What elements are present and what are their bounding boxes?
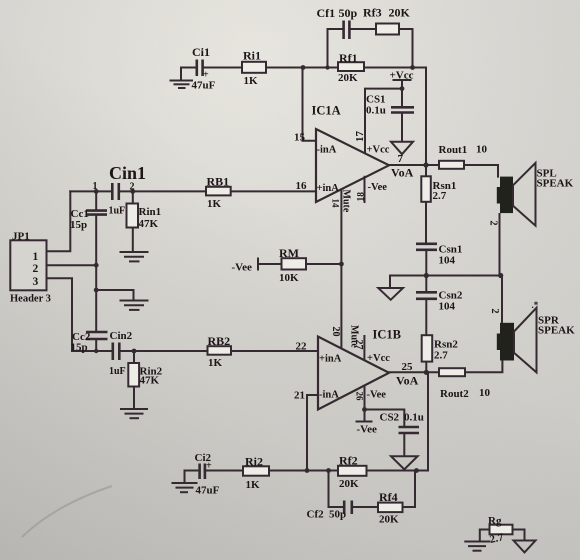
svg-text:2.7: 2.7 <box>433 190 447 202</box>
-Vee terminal for RM <box>257 259 259 270</box>
svg-text:47K: 47K <box>139 218 159 230</box>
wire +Vcc to pin 17 <box>365 89 402 153</box>
svg-text:Rin1: Rin1 <box>139 206 162 218</box>
pin 18 stub <box>364 177 366 202</box>
svg-text:Ci1: Ci1 <box>192 45 210 59</box>
svg-text:Rf3: Rf3 <box>363 6 382 20</box>
wire Rin2 leads <box>133 351 135 408</box>
resistor Rin2 47K <box>128 363 139 387</box>
pin 26 lead <box>364 386 366 410</box>
signal ground mid <box>121 301 148 310</box>
svg-text:Rout2: Rout2 <box>440 388 469 400</box>
wire Ri1 to Rf1 through node <box>266 67 338 69</box>
svg-text:50p: 50p <box>339 6 358 20</box>
capacitor Csn2 104 <box>416 292 437 299</box>
label Csn2 104 <box>439 290 463 313</box>
resistor Rf4 20K <box>378 503 403 512</box>
power ground triangle mid <box>378 276 403 300</box>
ground for Ci1 <box>171 68 196 89</box>
wire top loop Cf1/Rf3 <box>328 29 413 68</box>
capacitor Cf1 50p <box>344 21 350 40</box>
svg-text:47K: 47K <box>140 375 160 387</box>
svg-text:10K: 10K <box>279 272 299 284</box>
wire SPR to mid node <box>501 276 503 323</box>
label Rsn1 2.7 <box>433 180 457 202</box>
svg-text:IC1B: IC1B <box>373 328 401 342</box>
svg-text:.*: .* <box>532 300 539 310</box>
svg-text:Cin1: Cin1 <box>109 163 146 183</box>
svg-text:25: 25 <box>402 361 414 373</box>
wire mid ground tap <box>96 290 133 299</box>
label Cc1 15p <box>70 208 89 231</box>
svg-text:20K: 20K <box>338 72 358 84</box>
op-amp IC1B <box>318 337 389 410</box>
svg-text:+Vcc: +Vcc <box>367 145 390 156</box>
node output B <box>424 370 429 375</box>
+Vcc rail symbol <box>394 80 411 89</box>
wire output A to Rout1 <box>389 164 439 166</box>
svg-text:Cin2: Cin2 <box>110 330 133 342</box>
svg-text:1K: 1K <box>244 75 259 87</box>
power ground triangle under CS2 <box>391 456 418 469</box>
svg-text:50p: 50p <box>329 509 346 521</box>
node Cc chain ground tap <box>94 288 99 293</box>
node Ri2 / pin21 <box>305 468 310 473</box>
svg-text:SPEAK: SPEAK <box>537 178 574 190</box>
node speaker mid <box>498 273 503 278</box>
label Rf1 20K <box>338 51 358 84</box>
wire -Vee to RM <box>258 263 282 265</box>
wire Ci2 to Ri2 <box>205 470 244 472</box>
-Vee terminal below IC1B <box>357 410 372 422</box>
label Cin1 <box>93 163 147 193</box>
label RB1 <box>207 175 230 210</box>
svg-text:-inA: -inA <box>319 390 339 401</box>
label Ri2 <box>245 455 263 492</box>
node +Vcc/CS1 <box>400 86 405 91</box>
svg-text:47uF: 47uF <box>192 80 216 92</box>
svg-text:RM: RM <box>279 246 299 260</box>
svg-text:Ri1: Ri1 <box>243 49 261 63</box>
wire RM to mute line <box>306 263 341 265</box>
wire JP1 pin3 <box>47 278 73 351</box>
wire Rin1 top lead <box>132 191 134 203</box>
svg-text:CS2: CS2 <box>380 412 400 424</box>
svg-text:VoA: VoA <box>391 166 414 180</box>
resistor Rin1 47K <box>127 204 139 228</box>
svg-text:Header 3: Header 3 <box>10 294 51 305</box>
svg-text:Rf1: Rf1 <box>339 51 358 65</box>
resistor RB1 1K <box>206 187 231 196</box>
svg-text:1uF: 1uF <box>109 366 126 377</box>
svg-text:15p: 15p <box>70 219 87 231</box>
svg-text:-Vee: -Vee <box>368 182 388 193</box>
svg-text:10: 10 <box>476 144 488 156</box>
svg-text:15p: 15p <box>71 342 88 354</box>
svg-text:16: 16 <box>296 180 308 192</box>
capacitor Cc1 15p <box>86 211 107 215</box>
svg-text:-Vee: -Vee <box>367 390 387 401</box>
wire feedback down to output node A <box>425 68 427 166</box>
capacitor Cin1 1uF <box>112 183 119 200</box>
wire SPL to mid node <box>499 214 501 276</box>
capacitor Cin2 1uF <box>113 343 120 361</box>
label Rout2 10 <box>440 387 491 400</box>
svg-text:Mute: Mute <box>341 190 352 213</box>
label Rsn2 2.7 <box>434 339 458 362</box>
svg-text:-Vee: -Vee <box>357 424 377 436</box>
label Cc2 15p <box>71 331 91 354</box>
wire input 2 line <box>72 350 318 352</box>
svg-text:3: 3 <box>33 276 39 288</box>
svg-text:20K: 20K <box>339 478 359 490</box>
svg-text:RB1: RB1 <box>207 175 230 189</box>
label CS1 0.1u <box>366 94 386 117</box>
pin 27 stub <box>363 336 365 360</box>
svg-text:1K: 1K <box>246 479 261 491</box>
svg-text:47uF: 47uF <box>196 485 220 497</box>
svg-text:+Vcc: +Vcc <box>367 353 390 364</box>
svg-text:+inA: +inA <box>317 183 340 194</box>
svg-text:104: 104 <box>439 301 456 313</box>
node -Vee / CS2 <box>362 407 367 412</box>
label Ci2 <box>195 452 220 497</box>
svg-text:0.1u: 0.1u <box>366 105 386 117</box>
wire mid rail <box>390 275 501 277</box>
wire JP1 pin2 <box>47 264 97 266</box>
node Rf2 left / Cf2 <box>326 468 331 473</box>
capacitor Cc2 15p <box>86 332 108 339</box>
node loop left <box>325 65 329 69</box>
label Rf3 20K <box>363 6 411 20</box>
node output A <box>423 162 428 167</box>
label Rf2 20K <box>339 454 359 491</box>
svg-text:+inA: +inA <box>319 354 342 365</box>
svg-text:Rg: Rg <box>488 515 502 527</box>
capacitor CS1 0.1u <box>391 107 414 112</box>
label RM 10K <box>279 246 299 284</box>
svg-text:27: 27 <box>353 340 364 350</box>
svg-text:+: + <box>206 461 212 472</box>
wire Rf2 to corner <box>367 470 429 472</box>
wire Csn1 to Csn2 <box>425 251 427 292</box>
resistor RM 10K <box>282 258 307 269</box>
wire Rg right to power ground <box>513 530 536 553</box>
node Ri1/Rf1/pin15 <box>301 65 306 70</box>
svg-text:1: 1 <box>33 251 39 263</box>
resistor Rf2 20K <box>338 466 367 476</box>
svg-text:-inA: -inA <box>317 145 337 156</box>
resistor Rout1 10 <box>439 161 464 169</box>
svg-text:2: 2 <box>33 263 39 275</box>
label Ci1 <box>192 45 216 92</box>
resistor Rsn2 2.7 <box>422 335 433 361</box>
svg-text:26: 26 <box>355 392 365 402</box>
wire Cc chain vertical <box>95 191 97 351</box>
wire JP1 pin1 <box>47 191 71 251</box>
svg-text:2.7: 2.7 <box>434 350 448 362</box>
svg-text:20: 20 <box>330 327 341 337</box>
power ground triangle under CS1 <box>391 142 413 154</box>
svg-text:104: 104 <box>439 255 456 267</box>
svg-text:20K: 20K <box>389 6 411 20</box>
resistor Rf1 20K <box>338 62 364 71</box>
svg-text:-Vee: -Vee <box>232 262 252 274</box>
svg-text:20K: 20K <box>379 514 399 526</box>
svg-text:JP1: JP1 <box>12 231 30 243</box>
wire feedback up to output node B <box>427 372 429 470</box>
speaker SPL horn <box>513 163 536 226</box>
wire Rout2 to SPR <box>465 361 502 373</box>
label SPL SPEAK <box>537 168 574 190</box>
svg-text:2: 2 <box>489 309 500 314</box>
node Cin1 pin1 <box>94 189 99 194</box>
ground for Ci2 <box>173 471 199 493</box>
wire input 1 line <box>70 190 316 192</box>
svg-text:Ri2: Ri2 <box>245 455 263 469</box>
label Ri1 <box>243 49 261 88</box>
svg-text:10: 10 <box>479 387 491 399</box>
svg-text:1K: 1K <box>208 357 223 369</box>
svg-text:VoA: VoA <box>396 374 419 388</box>
svg-text:2: 2 <box>130 182 135 193</box>
signal ground under Rin1 <box>121 228 148 262</box>
svg-text:1K: 1K <box>207 198 222 210</box>
wire mute line pin14 to pin20 <box>340 189 342 348</box>
speaker SPR body <box>497 323 514 361</box>
svg-text:2: 2 <box>488 221 499 226</box>
wire Rout1 to SPL <box>464 165 498 177</box>
node Cc2 / input2 <box>94 349 98 353</box>
svg-text:17: 17 <box>354 131 366 143</box>
connector JP1 Header 3 <box>10 240 46 290</box>
label Csn1 104 <box>439 244 463 267</box>
capacitor Ci1 47uF <box>197 60 203 77</box>
resistor Ri1 1K <box>242 62 266 73</box>
svg-text:Rout1: Rout1 <box>439 144 468 156</box>
label Rf4 20K <box>379 490 399 526</box>
resistor Rf3 20K <box>376 24 399 35</box>
capacitor Ci2 47uF <box>200 464 205 480</box>
svg-text:1uF: 1uF <box>109 206 126 217</box>
svg-text:Rf2: Rf2 <box>339 454 358 468</box>
wire pin 21 tap <box>307 395 318 471</box>
svg-text:7: 7 <box>398 153 404 165</box>
wire Rsn2 to output B <box>425 362 427 373</box>
label SPR SPEAK <box>538 315 575 337</box>
node Rf4 right <box>414 468 419 473</box>
node Cin1 pin2 <box>130 189 135 194</box>
wire Cf2 Rf4 branch <box>329 471 416 508</box>
capacitor Cf2 50p <box>344 501 352 515</box>
resistor Rsn1 2.7 <box>421 176 431 202</box>
node snubber mid <box>424 273 429 278</box>
svg-text:1: 1 <box>93 181 98 192</box>
svg-text:Cf1: Cf1 <box>317 6 336 20</box>
resistor Rout2 10 <box>439 368 465 376</box>
wire Rsn1 leads <box>425 165 427 243</box>
svg-text:RB2: RB2 <box>208 334 231 348</box>
label Cf1 50p <box>317 6 358 20</box>
node Cin2 / Rin2 <box>132 349 137 354</box>
wire Rf1 to corner <box>364 67 426 69</box>
resistor Ri2 1K <box>243 466 269 475</box>
resistor RB2 1K <box>208 346 232 355</box>
svg-text:18: 18 <box>357 192 367 202</box>
speaker SPL body <box>497 177 513 214</box>
node RM / mute <box>339 262 344 267</box>
node JP1 pin2 / Cc chain <box>94 263 99 268</box>
speaker SPR horn <box>514 308 537 373</box>
svg-text:+Vcc: +Vcc <box>390 70 414 82</box>
wire Ri2 to Rf2 through nodes <box>269 470 338 472</box>
svg-text:21: 21 <box>294 390 305 402</box>
wire node to pin 15 <box>303 68 317 141</box>
svg-text:22: 22 <box>296 341 308 353</box>
label Cf2 50p <box>307 509 347 521</box>
label Rout1 10 <box>439 144 488 157</box>
svg-text:15: 15 <box>294 132 306 144</box>
wire Rg left to signal ground <box>465 530 489 551</box>
op-amp IC1A <box>316 129 389 202</box>
label Rg 2.7 <box>488 515 505 546</box>
resistor Rg 2.7 <box>490 525 513 535</box>
svg-text:0.1u: 0.1u <box>404 412 424 424</box>
wire Csn2 to Rsn2 <box>425 300 427 335</box>
wire Ci1 to Ri1 <box>204 67 242 69</box>
node loop right <box>410 65 415 70</box>
label Rin2 47K <box>140 366 163 387</box>
signal ground under Rin2 <box>121 409 147 418</box>
label Rin1 47K <box>139 206 162 230</box>
svg-text:IC1A: IC1A <box>312 104 341 118</box>
label CS2 0.1u <box>380 412 424 424</box>
svg-text:Cf2: Cf2 <box>307 509 325 521</box>
wire CS2 leads <box>365 410 405 457</box>
capacitor CS2 0.1u <box>399 427 420 433</box>
wire output B to Rout2 <box>389 371 439 373</box>
svg-text:14: 14 <box>331 199 341 209</box>
label RB2 <box>208 334 231 369</box>
JP1 pin numbers <box>33 251 39 288</box>
svg-text:Rf4: Rf4 <box>379 490 398 504</box>
wire CS1 leads <box>401 89 403 142</box>
svg-text:SPEAK: SPEAK <box>538 325 575 337</box>
capacitor Csn1 104 <box>416 244 437 250</box>
